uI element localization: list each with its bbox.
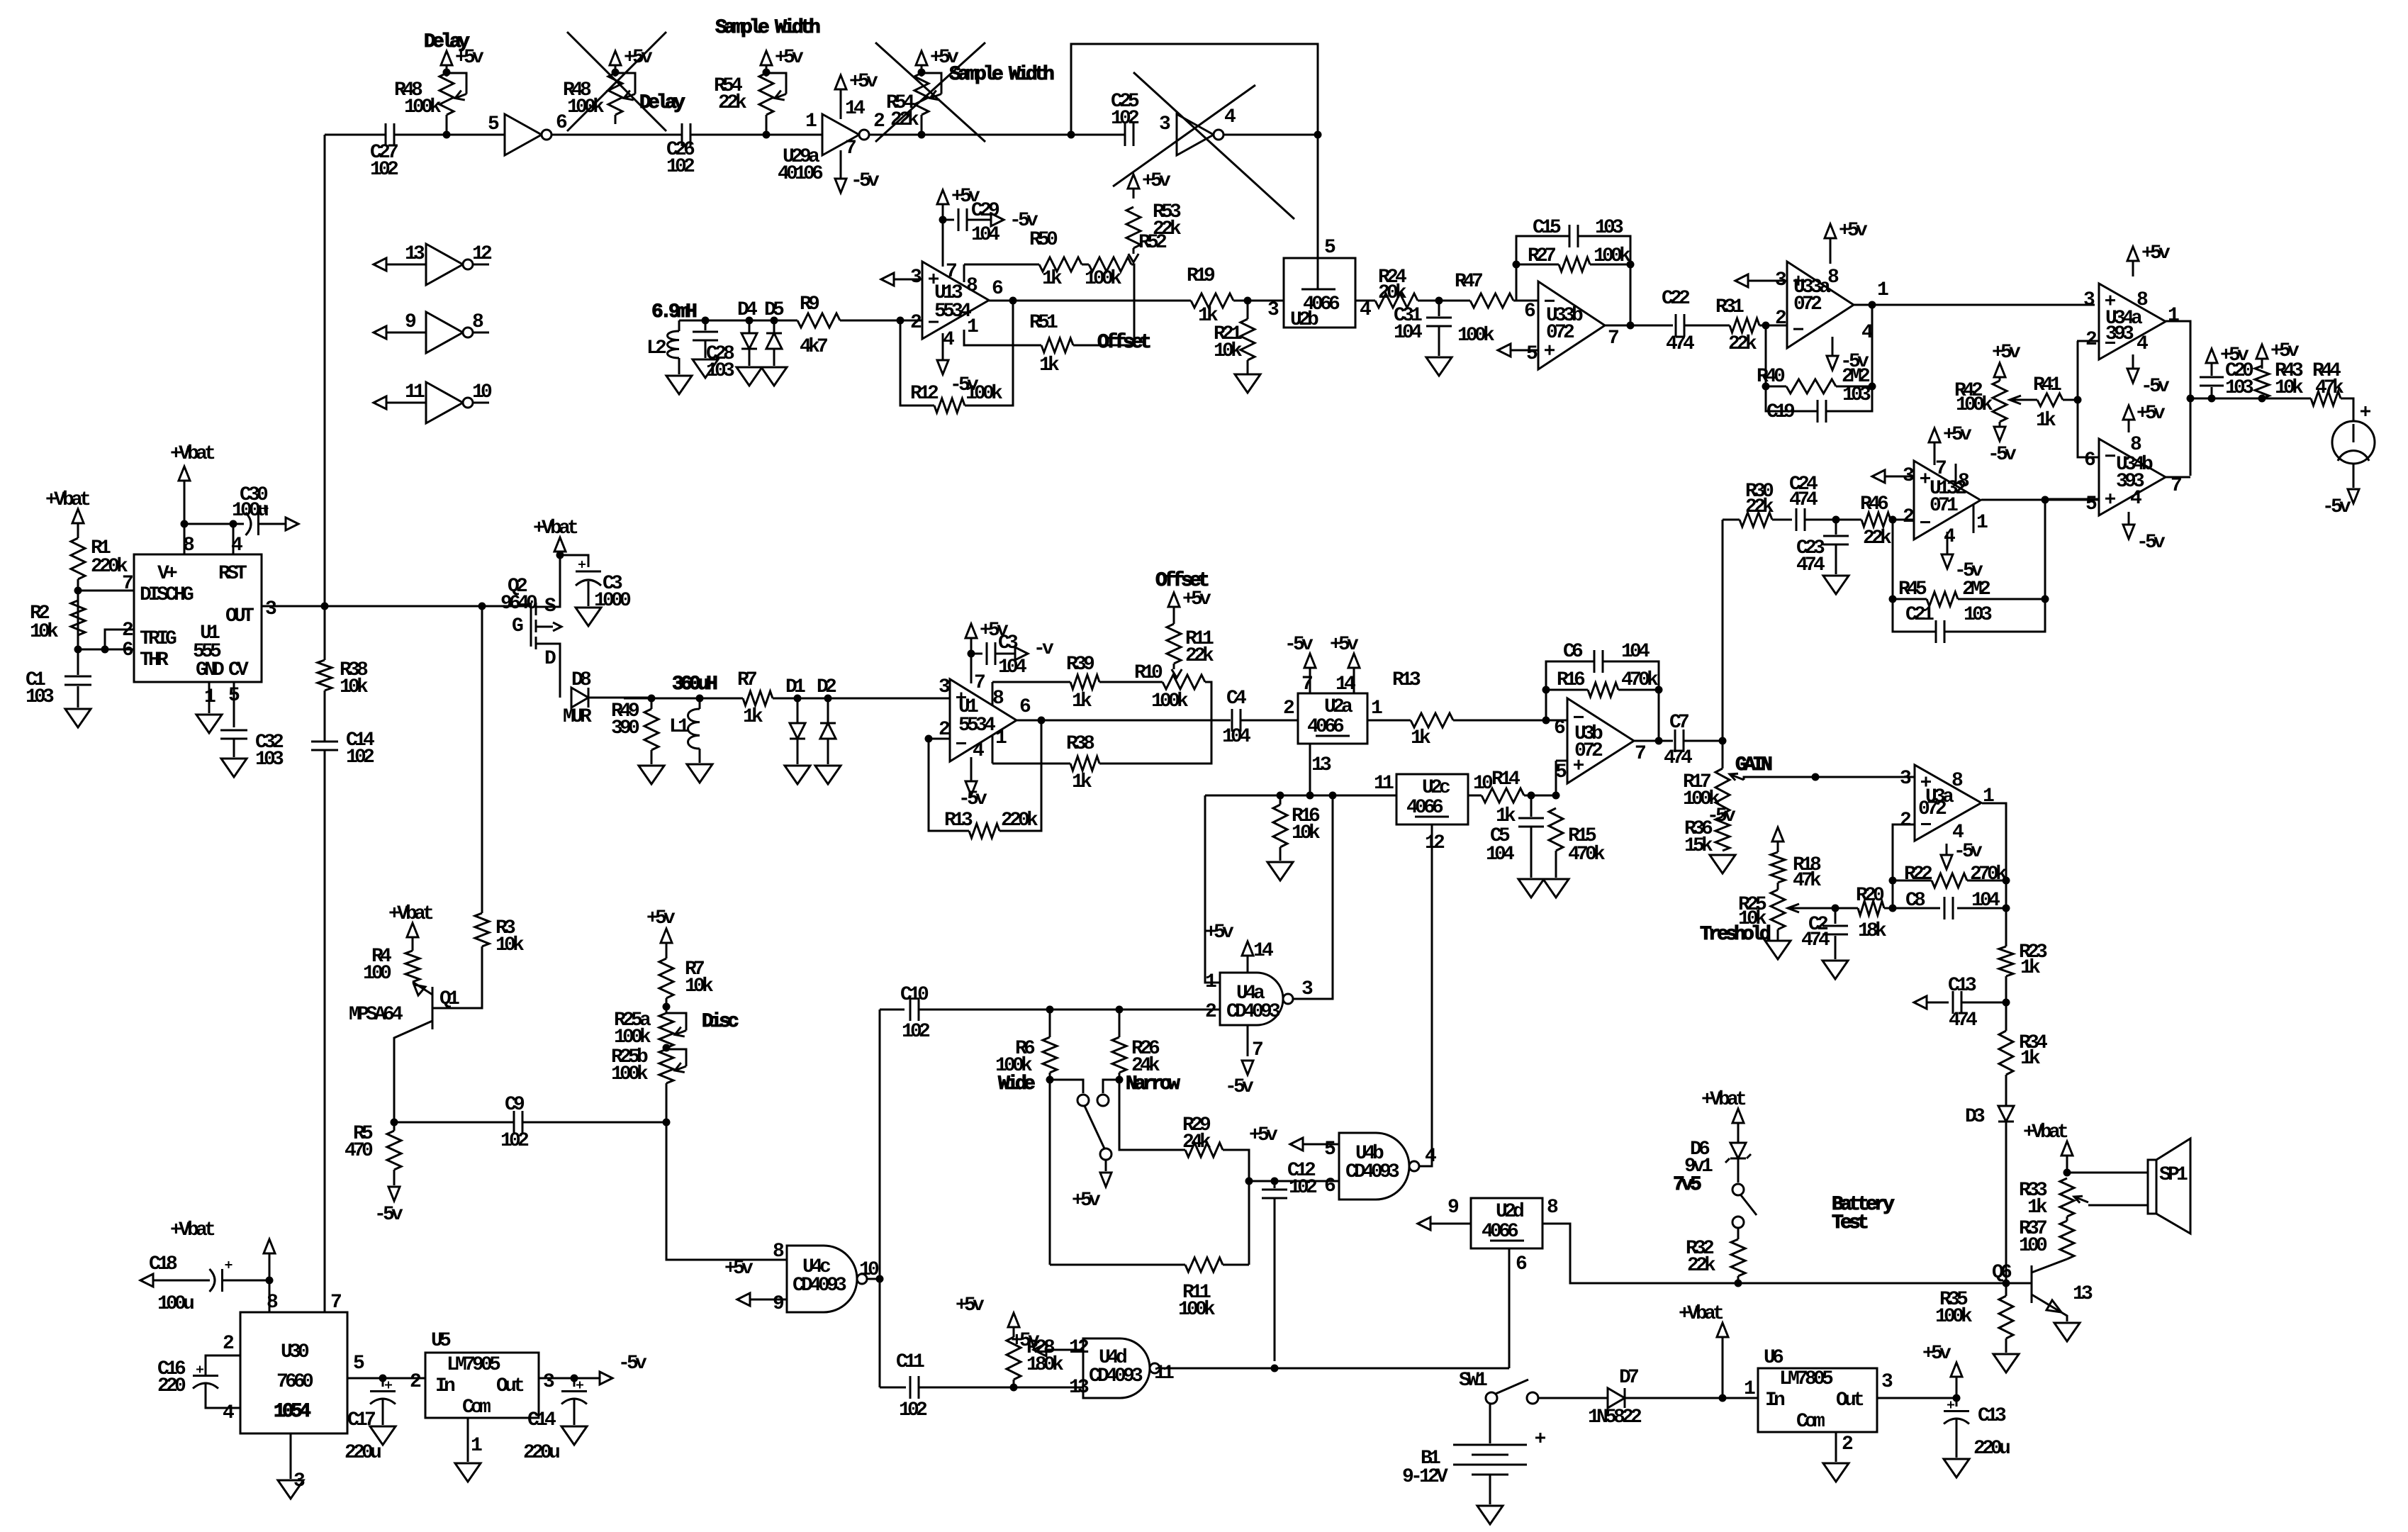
- inverter crossed copy: [1177, 114, 1214, 155]
- capacitor C24: [1772, 519, 1792, 521]
- resistor R43: [2255, 366, 2269, 398]
- resistor R23: [1999, 946, 2013, 976]
- capacitor C28: [705, 320, 707, 330]
- capacitor C13 220u: [1956, 1398, 1958, 1407]
- opamp U34a: [2099, 284, 2166, 359]
- svg-text:Q1: Q1: [439, 988, 459, 1010]
- svg-text:104: 104: [971, 224, 999, 246]
- wiper GAIN: [1730, 774, 1744, 780]
- resistor R37 100: [2060, 1221, 2074, 1259]
- svg-text:103: 103: [1595, 217, 1623, 239]
- resistor R11 22k: [1167, 624, 1181, 664]
- svg-text:072: 072: [1574, 740, 1603, 762]
- capacitor C13 474: [1914, 996, 1927, 1009]
- svg-text:+5v: +5v: [1922, 1343, 1951, 1365]
- svg-text:R20: R20: [1856, 885, 1884, 907]
- resistor R24: [1375, 293, 1418, 308]
- svg-text:CD4093: CD4093: [1226, 1001, 1280, 1023]
- wiper arrow: [1173, 664, 1175, 669]
- svg-text:072: 072: [1793, 293, 1822, 315]
- resistor R44: [2311, 391, 2341, 406]
- feedback loop R39/R10/R38: [992, 682, 994, 706]
- svg-text:103: 103: [255, 749, 284, 771]
- output: [1419, 824, 1432, 1166]
- svg-text:4066: 4066: [1307, 716, 1344, 738]
- pin4 -5v: [970, 757, 973, 780]
- resistor R38 10k: [318, 660, 332, 690]
- svg-text:360uH: 360uH: [672, 673, 717, 695]
- svg-text:13: 13: [1311, 754, 1331, 776]
- wire: [666, 1083, 787, 1260]
- ground: [693, 359, 718, 378]
- svg-text:102: 102: [902, 1021, 930, 1043]
- resistor R28 180k: [1007, 1337, 1021, 1380]
- svg-text:Offset: Offset: [1097, 332, 1150, 354]
- svg-text:TRIG: TRIG: [140, 628, 177, 650]
- wire: [663, 1003, 671, 1011]
- ground: [65, 709, 91, 727]
- svg-text:Test: Test: [1832, 1212, 1868, 1234]
- svg-text:102: 102: [1289, 1177, 1317, 1199]
- svg-text:10k: 10k: [1292, 822, 1321, 844]
- svg-text:-5v: -5v: [1988, 444, 2017, 466]
- svg-text:100: 100: [2019, 1235, 2047, 1257]
- svg-text:R22: R22: [1904, 863, 1932, 885]
- switch Battery Test: [1737, 1158, 1740, 1182]
- resistor R14 1k: [1482, 788, 1524, 803]
- ic U2a 4066: [1298, 693, 1367, 744]
- pin7 +5v: [970, 654, 973, 683]
- svg-text:C7: C7: [1669, 712, 1689, 734]
- capacitor C31: [1438, 301, 1440, 316]
- wire: [840, 320, 900, 322]
- svg-text:Q6: Q6: [1992, 1262, 2012, 1284]
- inverter U29 spare: [426, 382, 463, 423]
- wire: [1418, 300, 1470, 302]
- svg-text:+Vbat: +Vbat: [1679, 1303, 1723, 1325]
- svg-text:100k: 100k: [1457, 325, 1495, 347]
- transistor Q1 MPSA64: [432, 987, 434, 1029]
- resistor R45: [1893, 598, 1927, 600]
- capacitor C11: [880, 1387, 906, 1389]
- resistor R11 100k: [1050, 1264, 1185, 1266]
- wire: [2341, 398, 2353, 422]
- wire: [1805, 519, 1861, 521]
- wire TX: [679, 320, 773, 322]
- power +Vbat: [2063, 1169, 2071, 1177]
- svg-text:10k: 10k: [495, 934, 525, 956]
- svg-text:-5v: -5v: [1225, 1076, 1254, 1098]
- ground: [576, 608, 601, 626]
- wire: [77, 579, 79, 649]
- svg-text:MPSA64: MPSA64: [349, 1004, 403, 1026]
- svg-text:102: 102: [346, 747, 374, 768]
- wire: [2353, 464, 2355, 488]
- svg-text:C9: C9: [505, 1094, 525, 1116]
- svg-text:-5v: -5v: [2137, 532, 2166, 554]
- svg-text:13: 13: [1069, 1377, 1089, 1399]
- wire pin6: [1516, 300, 1538, 302]
- svg-text:474: 474: [1796, 554, 1825, 576]
- resistor R32 22k: [1737, 1228, 1740, 1239]
- capacitor C29: [943, 219, 954, 221]
- svg-text:474: 474: [1801, 929, 1830, 951]
- wire out: [1877, 1397, 1956, 1399]
- wire pin6: [1249, 1180, 1339, 1182]
- svg-text:10k: 10k: [685, 975, 714, 997]
- resistor R3 10k: [481, 606, 483, 913]
- svg-text:22k: 22k: [1185, 645, 1214, 667]
- svg-text:D8: D8: [571, 669, 591, 691]
- svg-text:4066: 4066: [1482, 1221, 1518, 1243]
- inverter U29 spare input arrow: [374, 258, 386, 271]
- nand U4b CD4093: [1339, 1133, 1409, 1200]
- svg-text:R13: R13: [1392, 669, 1421, 691]
- resistor R25b pot: [663, 1044, 671, 1052]
- svg-text:072: 072: [1546, 322, 1574, 344]
- opamp U33a: [1787, 262, 1854, 348]
- resistor R54 crossed copy: [921, 115, 923, 135]
- svg-text:47k: 47k: [1793, 870, 1822, 892]
- ic U5 LM7905: [425, 1353, 539, 1418]
- wire: [1684, 740, 1723, 742]
- no-connect cross: [567, 32, 666, 131]
- pin7 -5v: [1309, 671, 1311, 693]
- svg-text:104: 104: [1394, 322, 1422, 344]
- svg-text:+5v: +5v: [849, 71, 878, 93]
- wiper R25: [1791, 907, 1835, 910]
- svg-text:R38: R38: [1066, 733, 1094, 755]
- wire: [473, 402, 489, 404]
- svg-text:11: 11: [1154, 1363, 1174, 1385]
- resistor R15 470k: [1549, 808, 1563, 851]
- battery B1: [1489, 1404, 1491, 1443]
- svg-text:7660: 7660: [276, 1371, 313, 1393]
- pin7 +5v rail: [942, 220, 944, 267]
- svg-text:R45: R45: [1898, 578, 1927, 600]
- ground: [737, 367, 762, 386]
- svg-text:102: 102: [666, 156, 695, 178]
- svg-text:C19: C19: [1766, 401, 1795, 423]
- svg-text:5534: 5534: [958, 715, 995, 737]
- resistor R7 10k: [659, 958, 673, 998]
- svg-text:10k: 10k: [340, 676, 369, 698]
- capacitor C4: [1231, 709, 1233, 732]
- ground: [815, 766, 841, 784]
- svg-text:+5v: +5v: [775, 47, 804, 69]
- svg-text:+5v: +5v: [1011, 1330, 1040, 1352]
- output: [1981, 499, 2099, 501]
- svg-text:R41: R41: [2033, 374, 2061, 396]
- svg-text:U5: U5: [431, 1330, 451, 1352]
- wire: [1367, 720, 1411, 722]
- power +5v: [916, 51, 927, 65]
- svg-text:220k: 220k: [1001, 810, 1038, 832]
- wire bus: [324, 750, 326, 1312]
- svg-text:+5v: +5v: [1943, 424, 1972, 446]
- resistor R13 1k: [1411, 713, 1453, 727]
- svg-text:C18: C18: [149, 1253, 177, 1275]
- capacitor C12: [1274, 1181, 1276, 1188]
- svg-text:+5v: +5v: [956, 1295, 985, 1316]
- resistor R7 1k: [743, 691, 773, 705]
- svg-text:RST: RST: [218, 563, 247, 585]
- capacitor C27: [385, 123, 387, 146]
- wire pin8 to Q6: [1542, 1224, 2006, 1283]
- svg-text:22k: 22k: [1863, 527, 1892, 549]
- svg-text:13: 13: [405, 243, 425, 265]
- wire: [551, 134, 682, 136]
- resistor R34: [1999, 1031, 2013, 1075]
- svg-text:R39: R39: [1066, 654, 1094, 676]
- wire: [879, 1010, 881, 1387]
- svg-text:R12: R12: [910, 383, 939, 405]
- resistor R26 24k: [1119, 1010, 1121, 1037]
- resistor R33 1k pot: [2060, 1178, 2074, 1217]
- svg-text:180k: 180k: [1026, 1354, 1064, 1376]
- svg-text:-5v: -5v: [374, 1204, 403, 1226]
- resistor R4 100: [405, 951, 420, 982]
- svg-text:12: 12: [1425, 832, 1445, 854]
- wire: [880, 1009, 905, 1011]
- power +5v: [1128, 174, 1139, 189]
- svg-text:470k: 470k: [1621, 669, 1659, 691]
- wire: [325, 134, 386, 136]
- wire pin2: [900, 320, 922, 322]
- svg-text:100: 100: [363, 963, 391, 985]
- ic U2d 4066: [1471, 1198, 1542, 1248]
- wire: [1205, 795, 1396, 797]
- resistor R27: [1516, 264, 1559, 266]
- svg-text:C3: C3: [998, 632, 1018, 654]
- wire out: [539, 1377, 600, 1380]
- wire: [2005, 976, 2007, 1031]
- svg-text:SP1: SP1: [2159, 1164, 2188, 1186]
- output wire: [1854, 304, 2095, 306]
- svg-text:CD4093: CD4093: [793, 1275, 846, 1297]
- opamp U132 071: [1914, 461, 1981, 539]
- pin3 arrow: [1735, 274, 1748, 287]
- svg-text:390: 390: [611, 717, 639, 739]
- wire: [1759, 325, 1787, 327]
- wire pin5: [347, 1377, 425, 1380]
- svg-text:+5v: +5v: [724, 1258, 754, 1280]
- svg-text:5534: 5534: [934, 301, 971, 323]
- svg-text:20k: 20k: [1378, 282, 1407, 304]
- plus label: [2361, 410, 2370, 413]
- pin1 ground: [208, 682, 211, 713]
- pin8 +5v: [2128, 423, 2130, 432]
- pin1 ground: [467, 1418, 469, 1462]
- svg-text:104: 104: [1621, 641, 1650, 663]
- power +Vbat: [1722, 1340, 1724, 1398]
- offset network loop: [963, 264, 965, 268]
- resistor R5 470: [393, 1122, 396, 1131]
- ground: [370, 1426, 396, 1445]
- capacitor C9: [513, 1111, 515, 1134]
- ground: [561, 1426, 587, 1445]
- wire R30 riser: [1722, 520, 1724, 741]
- svg-text:220u: 220u: [523, 1442, 559, 1464]
- capacitor C15: [1569, 225, 1571, 247]
- svg-text:103: 103: [26, 686, 54, 708]
- svg-text:C21: C21: [1905, 604, 1934, 626]
- pin8 +5v: [2132, 264, 2134, 276]
- ground: [1518, 879, 1544, 898]
- headphone jack: [2332, 421, 2375, 464]
- capacitor C32: [233, 682, 235, 727]
- pin14 +5v: [1247, 958, 1249, 973]
- svg-text:22k: 22k: [1745, 496, 1774, 518]
- capacitor C21: [1935, 620, 1937, 643]
- svg-text:220u: 220u: [1973, 1438, 2010, 1460]
- svg-text:104: 104: [1971, 890, 2000, 912]
- wire: [2063, 399, 2078, 401]
- power +5v: [1008, 1313, 1019, 1327]
- capacitor C8 104: [1893, 907, 1940, 910]
- zener D6: [1730, 1143, 1746, 1158]
- svg-text:11: 11: [1374, 773, 1394, 795]
- resistor R50: [1039, 257, 1082, 272]
- svg-text:OUT: OUT: [225, 605, 254, 627]
- resistor R53: [1126, 207, 1141, 248]
- svg-text:100k: 100k: [1935, 1306, 1973, 1328]
- pin5 +5v arrow: [1290, 1138, 1303, 1151]
- svg-text:+Vbat: +Vbat: [2023, 1122, 2068, 1144]
- svg-text:D3: D3: [1965, 1106, 1985, 1128]
- feedback R45/C21: [1893, 520, 1936, 632]
- opamp U33b: [1538, 281, 1605, 369]
- ground: [687, 764, 712, 783]
- wire Wide to R11: [1049, 1080, 1051, 1265]
- wire: [2066, 1217, 2068, 1221]
- ground: [2005, 1338, 2007, 1353]
- svg-text:100k: 100k: [1956, 394, 1993, 416]
- ground: [1247, 360, 1249, 374]
- capacitor C1: [77, 649, 79, 675]
- svg-text:+Vbat: +Vbat: [170, 443, 215, 465]
- wire: [473, 332, 489, 334]
- resistor R30: [1740, 513, 1772, 527]
- diode D8 MUR: [571, 688, 588, 708]
- ground: [1944, 1459, 1969, 1477]
- wire Narrow to R29: [1119, 1080, 1185, 1150]
- resistor R48 crossed copy: [608, 73, 622, 115]
- diode D7 1N5822: [1538, 1397, 1608, 1399]
- svg-text:Narrow: Narrow: [1126, 1073, 1180, 1095]
- svg-text:C14: C14: [527, 1409, 556, 1431]
- ground: [761, 367, 787, 386]
- wire bus: [324, 135, 326, 660]
- svg-text:22k: 22k: [890, 109, 919, 131]
- no-connect cross: [1133, 72, 1294, 219]
- feedback R13 220k: [929, 739, 969, 831]
- svg-text:100k: 100k: [1594, 245, 1631, 267]
- svg-text:R14: R14: [1491, 768, 1520, 790]
- wire: [773, 698, 950, 700]
- svg-text:R7: R7: [737, 669, 756, 691]
- svg-text:CD4093: CD4093: [1089, 1365, 1143, 1387]
- svg-text:D5: D5: [764, 299, 784, 321]
- resistor R12: [934, 398, 965, 413]
- resistor R46: [1861, 513, 1891, 527]
- svg-text:Delay: Delay: [639, 92, 685, 114]
- diode D3: [1998, 1106, 2014, 1122]
- svg-text:474: 474: [1664, 747, 1692, 769]
- svg-text:R27: R27: [1528, 245, 1555, 267]
- svg-text:R19: R19: [1187, 265, 1215, 287]
- power +5v: [441, 51, 452, 65]
- svg-text:-5v: -5v: [618, 1353, 647, 1375]
- wire pin5: [1556, 760, 1567, 762]
- svg-text:C22: C22: [1662, 288, 1690, 310]
- capacitor C18 100u: [140, 1274, 153, 1287]
- inverter U29b: [505, 114, 542, 155]
- svg-text:1054: 1054: [274, 1401, 310, 1423]
- svg-text:103: 103: [1842, 384, 1871, 406]
- ic U1 555: [134, 554, 262, 682]
- wire: [1233, 300, 1284, 302]
- opamp U3a 072: [1915, 765, 1981, 841]
- switch Wide/Narrow: [1050, 1080, 1083, 1093]
- resistor R17 pot: [1722, 741, 1724, 768]
- no-connect cross: [875, 43, 985, 142]
- wire TRIG jog: [105, 630, 134, 649]
- wire pin6: [2078, 341, 2099, 457]
- svg-text:+5v: +5v: [1839, 220, 1868, 242]
- svg-text:C29: C29: [971, 200, 999, 222]
- output wire: [2166, 321, 2190, 476]
- svg-text:14: 14: [845, 98, 865, 120]
- svg-text:Disc: Disc: [702, 1011, 739, 1033]
- resistor R29 24k: [1185, 1143, 1223, 1157]
- capacitor C17 220u: [382, 1378, 384, 1387]
- pin7 +5v: [1934, 445, 1936, 465]
- svg-text:+5v: +5v: [1072, 1190, 1101, 1212]
- wire U2d control: [1508, 1248, 1511, 1368]
- ic U30 7660: [240, 1312, 347, 1433]
- svg-text:Sample Width: Sample Width: [715, 17, 820, 39]
- svg-text:100k: 100k: [1151, 690, 1189, 712]
- capacitor C3 104: [971, 653, 982, 655]
- pin9 +5v arrow: [737, 1293, 750, 1306]
- svg-text:L1: L1: [669, 716, 689, 738]
- svg-text:102: 102: [370, 159, 398, 181]
- svg-text:100k: 100k: [404, 96, 442, 118]
- ground: [1777, 929, 1779, 941]
- svg-text:102: 102: [899, 1399, 927, 1421]
- svg-text:C8: C8: [1905, 890, 1925, 912]
- svg-text:CD4093: CD4093: [1345, 1161, 1399, 1183]
- svg-text:-5v: -5v: [1954, 841, 1983, 863]
- svg-text:R13: R13: [944, 810, 973, 832]
- svg-text:22k: 22k: [1728, 333, 1757, 355]
- pin4 -5v: [2132, 354, 2134, 366]
- svg-text:Treshold: Treshold: [1700, 924, 1770, 946]
- power -5v out: [600, 1372, 612, 1385]
- ground: [2054, 1323, 2080, 1341]
- nand U4a CD4093: [1220, 973, 1283, 1025]
- ic U2b 4066: [1284, 258, 1355, 328]
- svg-text:D2: D2: [817, 676, 836, 698]
- output wire: [1293, 795, 1333, 999]
- svg-text:100k: 100k: [611, 1063, 649, 1085]
- capacitor C30 100u: [233, 523, 244, 525]
- capacitor C14 102: [311, 741, 338, 743]
- svg-text:102: 102: [500, 1130, 529, 1152]
- capacitor C20: [2211, 387, 2213, 398]
- svg-text:18k: 18k: [1858, 920, 1887, 942]
